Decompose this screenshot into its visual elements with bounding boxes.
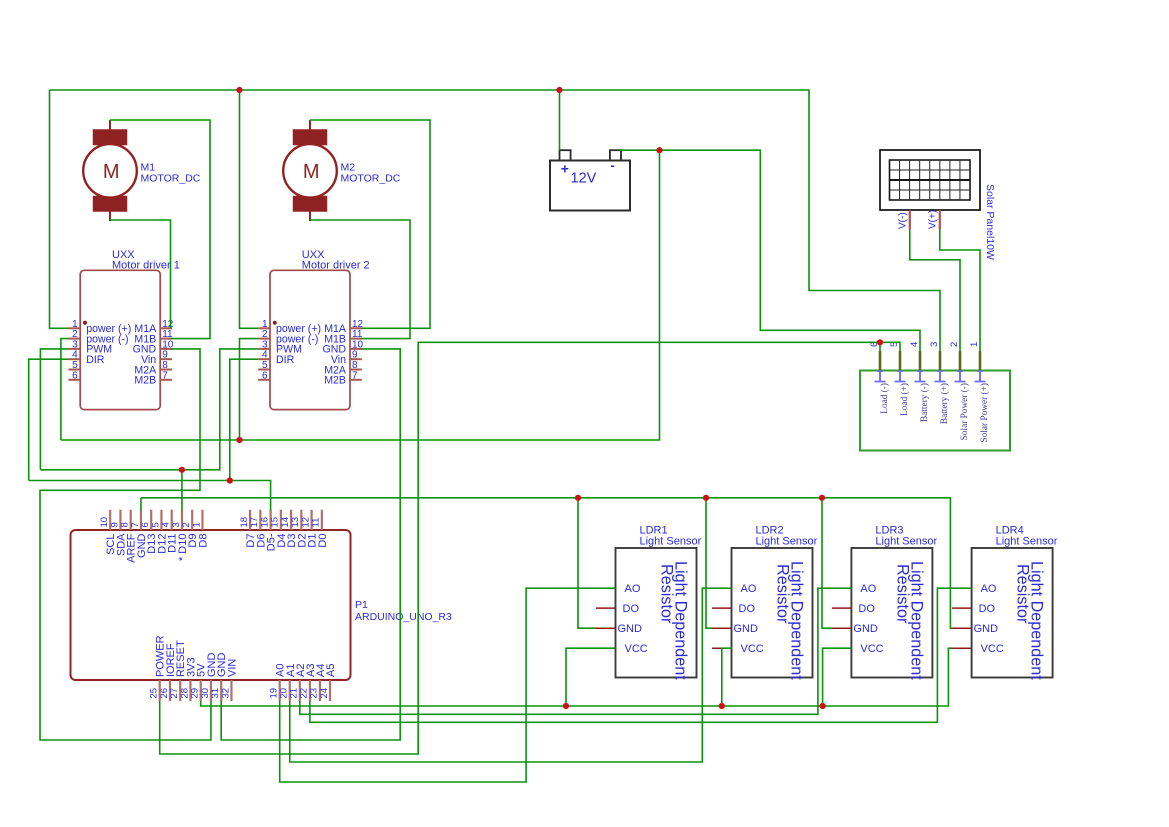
wire solar V(-) to controller pin2	[910, 230, 960, 352]
svg-text:3: 3	[929, 342, 940, 347]
svg-text:6: 6	[72, 370, 78, 381]
junction power- bus	[236, 437, 242, 443]
svg-text:Solar Power (+): Solar Power (+)	[979, 383, 990, 442]
motor M2 MOTOR_DC	[283, 120, 401, 221]
solar panel PV1 Solar Panel10W	[880, 150, 996, 260]
svg-text:2: 2	[949, 342, 960, 347]
motor M1 MOTOR_DC	[83, 120, 201, 221]
wire arduino A0 to LDR1 AO	[280, 588, 616, 782]
junction GND bus LDR3	[819, 495, 825, 501]
svg-text:1: 1	[969, 342, 980, 347]
svg-text:VCC: VCC	[860, 643, 883, 655]
junction 5V bus LDR1	[563, 703, 569, 709]
svg-text:DIR: DIR	[86, 354, 105, 366]
wire arduino GND7 riser	[140, 498, 142, 511]
wire battery (-) to controller Battery(-) pin4	[620, 150, 920, 351]
svg-text:Resistor: Resistor	[893, 564, 911, 624]
svg-text:1: 1	[191, 522, 202, 527]
arduino P1 ARDUINO_UNO_R3	[71, 510, 453, 701]
svg-text:GND: GND	[853, 623, 878, 635]
svg-text:D0: D0	[317, 534, 329, 548]
svg-text:VCC: VCC	[981, 643, 1004, 655]
svg-text:ARDUINO_UNO_R3: ARDUINO_UNO_R3	[355, 611, 452, 623]
wire driver2 power(-) drop	[240, 339, 259, 440]
svg-text:DIR: DIR	[276, 354, 295, 366]
svg-text:-: -	[611, 158, 615, 173]
wire motor M2 bottom to driver2 M1B	[310, 220, 410, 339]
svg-text:Resistor: Resistor	[658, 564, 676, 624]
wire motor M1 top to driver1 M1B	[110, 120, 210, 339]
junction 5V bus LDR3	[820, 703, 826, 709]
wire arduino A3 to LDR4 AO	[310, 588, 972, 722]
svg-text:Load (+): Load (+)	[899, 383, 910, 416]
wire LDR2 GND drop	[706, 498, 712, 628]
wire LDR2 VCC riser	[722, 648, 732, 706]
svg-text:VCC: VCC	[625, 643, 648, 655]
LDR3 Light Sensor (Light Dependent Resistor)	[832, 525, 938, 681]
wire arduino A1 to LDR2 AO	[290, 588, 732, 762]
wire LDR1 VCC riser	[566, 648, 616, 706]
svg-text:AO: AO	[981, 583, 997, 595]
wire arduino POWER to controller Load pins	[160, 342, 900, 754]
wire rail to battery (+)	[559, 90, 561, 150]
junction GND bus LDR1	[575, 495, 581, 501]
wire driver1 DIR drop	[29, 359, 69, 480]
svg-text:DO: DO	[623, 603, 640, 615]
charge controller U3 (solar charge controller)	[860, 342, 1010, 451]
svg-text:Resistor: Resistor	[1014, 564, 1032, 624]
svg-text:24: 24	[319, 688, 330, 699]
wire D10 riser	[181, 470, 183, 511]
svg-text:Solar Power (-): Solar Power (-)	[959, 383, 970, 440]
svg-text:MOTOR_DC: MOTOR_DC	[341, 173, 401, 185]
wire motor M1 bottom to driver1 M1A	[110, 220, 171, 328]
svg-text:32: 32	[220, 688, 231, 699]
junction PWM/D10	[179, 467, 185, 473]
svg-text:4: 4	[909, 342, 920, 347]
LDR4 Light Sensor (Light Dependent Resistor)	[952, 525, 1058, 681]
svg-text:+: +	[561, 161, 569, 177]
LDR2 Light Sensor (Light Dependent Resistor)	[712, 525, 818, 681]
junction battery- node	[656, 147, 662, 153]
wire arduino A2 to LDR3 AO	[300, 588, 852, 714]
junction rail-driver2	[236, 87, 242, 93]
svg-text:P1: P1	[355, 599, 368, 611]
motor driver UXX Motor driver 1	[68, 249, 179, 409]
svg-text:A5: A5	[325, 664, 337, 677]
svg-text:Battery (-): Battery (-)	[919, 383, 930, 422]
wire driver1 PWM drop	[40, 349, 68, 470]
junction 5V bus LDR2	[719, 703, 725, 709]
svg-text:V(+): V(+)	[928, 210, 939, 229]
wire driver2 DIR drop	[230, 359, 258, 480]
svg-text:VCC: VCC	[741, 643, 764, 655]
wire solar V(+) to controller pin1	[940, 230, 980, 352]
LDR1 Light Sensor (Light Dependent Resistor)	[596, 525, 702, 681]
motor driver UXX Motor driver 2	[258, 249, 369, 409]
svg-text:7: 7	[352, 370, 358, 381]
svg-text:AO: AO	[860, 583, 876, 595]
svg-text:Light Sensor: Light Sensor	[756, 536, 818, 548]
junction DIR/D5	[227, 477, 233, 483]
wire DIR bus to D5	[29, 481, 271, 511]
svg-text:Light Sensor: Light Sensor	[996, 536, 1058, 548]
svg-text:Solar Panel10W: Solar Panel10W	[984, 184, 996, 260]
junction rail-battery+	[556, 87, 562, 93]
svg-text:V(-): V(-)	[898, 212, 909, 229]
wire LDR3 VCC riser	[823, 648, 852, 706]
svg-text:Light Sensor: Light Sensor	[640, 536, 702, 548]
svg-text:VIN: VIN	[226, 659, 238, 677]
wire driver1 power(-) drop	[61, 339, 69, 440]
wire arduino 5V bus to LDR4 VCC	[201, 648, 952, 706]
wire rail to driver2 power(+)	[240, 90, 259, 328]
svg-text:M2B: M2B	[324, 375, 346, 387]
svg-text:7: 7	[162, 370, 168, 381]
wire LDR3 GND drop	[822, 498, 832, 628]
svg-text:Resistor: Resistor	[774, 564, 792, 624]
wire controller Load(-) pin6 tap	[879, 342, 881, 351]
svg-text:AO: AO	[741, 583, 757, 595]
svg-text:DO: DO	[739, 603, 756, 615]
svg-text:M: M	[303, 161, 320, 183]
wire driver2 GND to arduino GND31	[221, 349, 400, 740]
svg-text:D8: D8	[197, 534, 209, 548]
svg-text:11: 11	[311, 518, 322, 528]
svg-text:Battery (+): Battery (+)	[939, 383, 950, 424]
svg-text:6: 6	[262, 370, 268, 381]
wire +12V top rail	[50, 90, 941, 351]
wire PWM bus to D10	[40, 349, 258, 470]
svg-text:AO: AO	[625, 583, 641, 595]
svg-text:DO: DO	[979, 603, 996, 615]
battery BT1 12V	[550, 150, 630, 210]
wire battery (-) down to power(-) bus	[61, 150, 660, 440]
svg-text:M2B: M2B	[134, 375, 156, 387]
svg-text:12V: 12V	[571, 171, 597, 187]
wire motor M2 top to driver2 M1A	[310, 120, 430, 328]
svg-text:DO: DO	[858, 603, 875, 615]
wire LDR1 GND drop	[578, 498, 596, 628]
svg-text:Load (-): Load (-)	[879, 383, 890, 414]
wire GND bus to LDR4 GND	[141, 498, 952, 628]
controller pin stubs	[880, 351, 980, 371]
svg-text:GND: GND	[618, 623, 643, 635]
svg-text:Light Sensor: Light Sensor	[875, 536, 937, 548]
junction GND bus LDR2	[703, 495, 709, 501]
wire driver1 GND to arduino GND30	[40, 349, 211, 740]
junction Load(-)	[877, 339, 883, 345]
svg-text:M: M	[103, 161, 120, 183]
svg-text:GND: GND	[734, 623, 759, 635]
wire rail to driver1 power(+)	[50, 90, 69, 328]
svg-text:GND: GND	[974, 623, 999, 635]
svg-text:MOTOR_DC: MOTOR_DC	[141, 173, 201, 185]
